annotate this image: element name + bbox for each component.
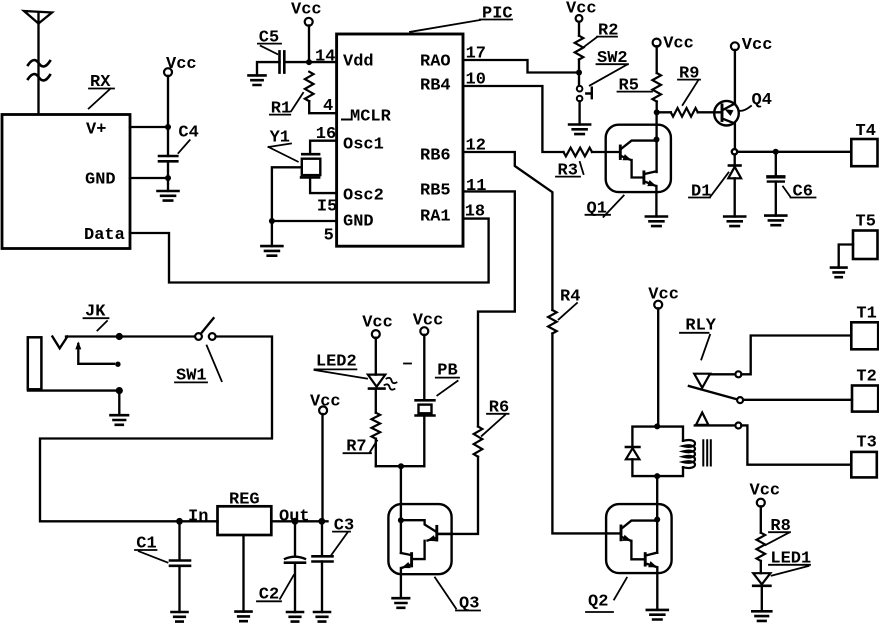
Q3 T1 collector to R6 [437, 533, 452, 535]
svg-text:14: 14 [315, 48, 335, 67]
wire Out rail [271, 520, 327, 522]
svg-text:Q2: Q2 [588, 593, 608, 612]
wire PB to node [423, 416, 425, 467]
svg-text:R3: R3 [558, 162, 578, 181]
ground at C5 [249, 75, 266, 85]
svg-text:Vcc: Vcc [750, 482, 781, 501]
transistor Q1 (darlington) [606, 125, 671, 192]
Q2 T2 emitter [646, 564, 657, 568]
svg-text:V+: V+ [86, 121, 106, 140]
svg-text:In: In [188, 508, 208, 527]
capacitor C2 (polarized) [294, 521, 296, 556]
Q2 T2 base bar [644, 554, 647, 566]
wire Vcc down [167, 76, 169, 156]
LED LED1 [753, 573, 770, 584]
node Q4/D1/T4 (open) [732, 149, 737, 154]
svg-text:Vcc: Vcc [413, 312, 444, 331]
Q2 base bar [620, 526, 623, 540]
svg-text:18: 18 [465, 203, 485, 222]
diode D1 [734, 155, 736, 166]
wire crystal to Osc2 [310, 177, 337, 193]
wire to T2 [743, 399, 852, 401]
relay core [703, 440, 711, 465]
resistor R3 [564, 148, 593, 157]
svg-text:GND: GND [85, 171, 116, 190]
relay lever [689, 386, 737, 399]
wire pin 12 RB6 to R4 [463, 152, 552, 310]
antenna break squiggle [28, 60, 50, 80]
node In/C1 [176, 518, 183, 525]
node GND/C4 [165, 175, 171, 181]
Q4 collector [722, 119, 735, 150]
svg-text:Vcc: Vcc [742, 36, 773, 55]
svg-text:T5: T5 [856, 213, 876, 232]
svg-text:RB4: RB4 [420, 77, 451, 96]
node jack sleeve [116, 387, 123, 394]
svg-text:T3: T3 [856, 434, 876, 453]
node jack ring [115, 362, 120, 367]
Q2 T1 emitter [622, 537, 631, 541]
svg-text:Vcc: Vcc [648, 286, 679, 305]
wire Vcc to LED2 [375, 338, 377, 375]
Q1 base bar [619, 146, 622, 159]
transistor Q2 (darlington) [606, 504, 672, 573]
svg-text:T1: T1 [856, 305, 876, 324]
svg-text:5: 5 [324, 227, 334, 246]
svg-text:GND: GND [343, 213, 374, 232]
Q1 collector rail [655, 112, 657, 172]
resistor R8 [760, 506, 762, 532]
LED2 emission arrows [385, 378, 397, 390]
svg-text:Vcc: Vcc [663, 35, 694, 54]
node jack tip [116, 333, 123, 340]
wire Osc1 to crystal [310, 141, 337, 155]
ground below Q3 [393, 598, 410, 608]
Q1 T1 emitter [621, 156, 631, 160]
svg-text:PIC: PIC [482, 5, 513, 24]
Q1 T2 base bar [642, 172, 645, 183]
svg-text:MCLR: MCLR [350, 108, 392, 127]
wire to T3 [741, 425, 851, 464]
jack JK [28, 337, 42, 389]
antenna [24, 11, 52, 24]
resistor R5 [656, 46, 658, 73]
svg-text:R2: R2 [598, 22, 618, 41]
wire pin 10 RB4 to R3 [463, 86, 564, 152]
wire In [180, 520, 218, 522]
wire Vcc to relay [657, 308, 659, 426]
LED LED2 [368, 375, 385, 387]
crystal Y1 [301, 154, 319, 177]
wire jack sleeve [28, 389, 119, 391]
wire pin 17 RA0 to R2 node [463, 60, 579, 73]
ground below Q2 [647, 610, 668, 620]
node C6 [773, 149, 779, 155]
wire SW1 to REG In [40, 337, 272, 522]
ground below C4 [167, 178, 169, 191]
resistor R4 [548, 310, 557, 334]
ground below jack [118, 391, 120, 416]
wire Vcc down to Out rail [321, 414, 323, 521]
node GND/Y1 [269, 218, 275, 224]
small mark [404, 363, 411, 365]
svg-text:11: 11 [466, 177, 486, 196]
transistor Q4 (PNP) [714, 101, 739, 126]
wire Vcc to Vdd pin 14 [309, 25, 337, 62]
Q3 T2 emitter [402, 565, 411, 568]
wire Data to pin 18 RA1 [130, 219, 489, 283]
wire R4 to Q2 base [552, 334, 620, 534]
svg-text:Vcc: Vcc [291, 1, 322, 20]
capacitor C4 [159, 156, 177, 161]
resistor R7 [375, 389, 377, 413]
wire node to T4 [737, 151, 851, 153]
relay flyback diode [626, 446, 640, 449]
capacitor C3 [321, 521, 323, 556]
Q1 T2 collector [645, 171, 657, 174]
svg-text:Q4: Q4 [752, 91, 772, 110]
wire to T1 [741, 336, 851, 375]
ground below Q1 [646, 217, 667, 227]
node C3/Vcc [318, 518, 325, 525]
wire crystal case to ground node [272, 167, 302, 221]
wire antenna lead [37, 24, 39, 115]
node Vdd [306, 59, 312, 65]
wire LED2/PB node rail [376, 465, 425, 467]
svg-text:C4: C4 [178, 124, 198, 143]
ground below SW2 [578, 101, 580, 124]
svg-text:C5: C5 [259, 29, 279, 48]
svg-text:I5: I5 [317, 198, 337, 217]
svg-text:Osc1: Osc1 [343, 136, 384, 155]
wire GND pin 5 [272, 220, 337, 222]
wire C5 [257, 62, 309, 75]
transistor Q3 (darlington) [388, 504, 451, 574]
wire jack tip contact [66, 335, 195, 337]
Q3 T1 emitter [428, 538, 437, 541]
Q1 T2 emitter [645, 182, 656, 186]
capacitor C6 [775, 152, 777, 177]
node R2/SW2 [576, 70, 582, 76]
relay RLY coil box [632, 427, 683, 477]
resistor R6 [474, 427, 483, 457]
ground below Y1 node [271, 221, 273, 246]
resistor R1 [305, 72, 314, 102]
Q2 T2 collector [646, 553, 657, 556]
svg-text:Vdd: Vdd [343, 53, 374, 72]
wire contact NO [695, 424, 736, 426]
resistor R2 [578, 22, 580, 36]
PIC microcontroller [337, 34, 463, 246]
svg-text:T2: T2 [856, 368, 876, 387]
ground below D1 [724, 217, 745, 227]
RX receiver module [2, 115, 130, 249]
Q3 T1 base bar [435, 526, 438, 540]
svg-text:Data: Data [84, 226, 125, 245]
svg-text:RAO: RAO [420, 53, 451, 72]
ground below C6 [765, 216, 786, 226]
ground below LED1 [752, 611, 771, 621]
node C2 [292, 518, 299, 525]
svg-text:C6: C6 [793, 183, 813, 202]
wire Vcc to PB [423, 335, 425, 400]
node Q3 input [398, 463, 404, 469]
Q3 T2 base bar [410, 554, 413, 566]
node R5/R9/Q1 [654, 109, 660, 115]
svg-text:R5: R5 [619, 77, 639, 96]
Q3 T1 base feed [401, 520, 436, 531]
wire R1 to MCLR pin 4 [309, 101, 336, 113]
svg-text:D1: D1 [691, 183, 711, 202]
svg-text:SW2: SW2 [597, 49, 628, 68]
svg-text:C3: C3 [334, 517, 354, 536]
jack switch arrow [78, 344, 114, 364]
relay coil [683, 440, 695, 468]
svg-text:RA1: RA1 [420, 208, 451, 227]
svg-text:R9: R9 [679, 65, 699, 84]
wire T5 to ground [839, 245, 853, 268]
Q2 T1 collector [622, 521, 658, 529]
relay contact marker bottom [696, 413, 708, 425]
capacitor C5 [280, 51, 285, 72]
svg-text:R1: R1 [271, 100, 291, 119]
piezo buzzer PB [416, 400, 435, 415]
resistor R9 [671, 108, 698, 117]
svg-text:RB5: RB5 [420, 182, 451, 201]
switch SW2 push-button [578, 73, 580, 86]
Q1 T1 collector [621, 141, 657, 149]
wire pin 11 RB5 to R6 [463, 191, 515, 426]
svg-text:Osc2: Osc2 [343, 187, 384, 206]
wire V+ to Vcc node [130, 126, 168, 128]
Q3 input rail [400, 466, 402, 553]
switch SW1 [195, 333, 202, 340]
REG ground pin [242, 535, 244, 612]
Q3 T2 collector [401, 553, 411, 555]
node V+/C4 [165, 124, 171, 130]
wire R3 to Q1 base [592, 151, 620, 153]
wire contact NC [710, 373, 735, 375]
capacitor C1 [178, 521, 180, 560]
wire Q4 emitter to Vcc [724, 50, 735, 109]
Q2 collector rail [656, 476, 658, 553]
svg-text:RB6: RB6 [420, 147, 451, 166]
wire R6 to Q3 [437, 457, 478, 534]
wire GND pin [130, 177, 168, 179]
wire C4 to GND node [167, 161, 169, 178]
relay contact marker top [694, 374, 710, 388]
